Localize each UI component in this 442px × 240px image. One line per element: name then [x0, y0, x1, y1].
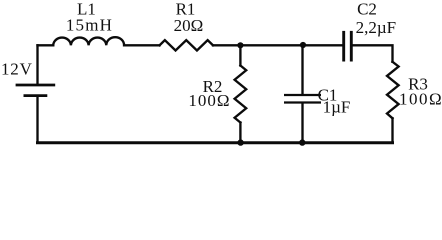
svg-text:C2: C2 — [357, 0, 377, 19]
svg-text:100Ω: 100Ω — [399, 90, 442, 109]
svg-text:1µF: 1µF — [323, 98, 351, 117]
svg-text:100Ω: 100Ω — [188, 91, 230, 110]
svg-text:20Ω: 20Ω — [174, 16, 204, 35]
svg-text:12V: 12V — [1, 60, 33, 79]
svg-text:2,2µF: 2,2µF — [356, 18, 397, 37]
svg-text:15mH: 15mH — [66, 16, 113, 35]
